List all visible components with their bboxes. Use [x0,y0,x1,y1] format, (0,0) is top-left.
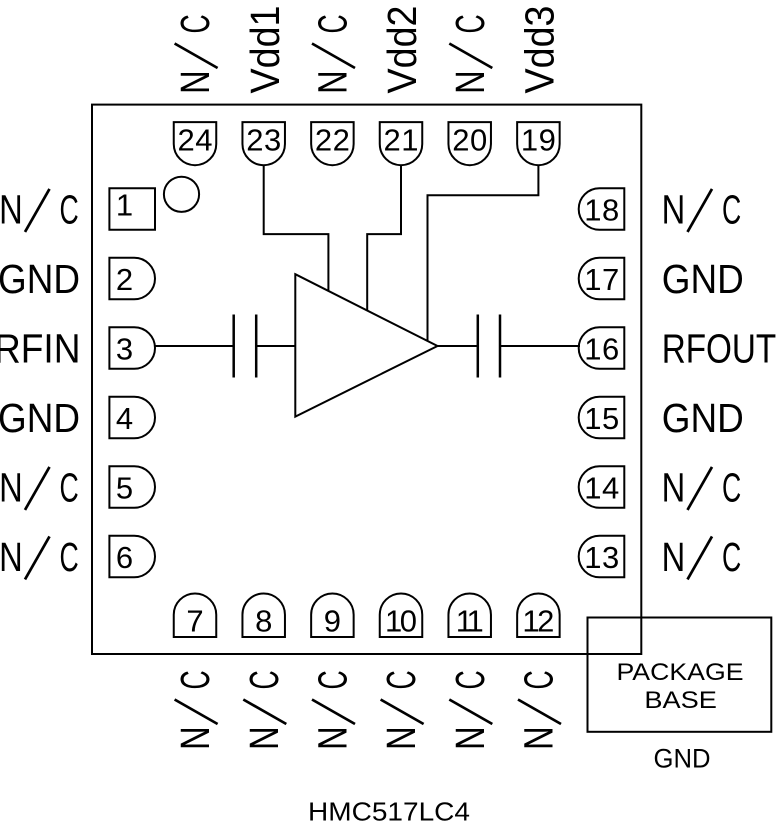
svg-text:N: N [662,534,686,580]
pin 6 pad [109,536,155,578]
pin 11 pad [448,594,491,638]
pin 7 pad [174,594,217,638]
svg-text:PACKAGE: PACKAGE [617,659,744,686]
pin 17 pad [579,258,625,300]
pin 12 pad [517,594,560,638]
pin 3 pad [109,327,155,369]
svg-text:11: 11 [456,603,484,638]
svg-text:HMC517LC4: HMC517LC4 [308,797,470,827]
svg-text:N: N [310,70,356,94]
capacitor C2 (output DC block) [478,315,500,378]
pin 10 pad [380,594,423,638]
wire pin 23 (Vdd1) to amplifier [264,166,329,292]
svg-text:N: N [172,726,218,750]
svg-text:C: C [378,670,424,689]
svg-text:C: C [172,670,218,689]
svg-text:N: N [662,465,686,511]
svg-text:C: C [722,465,741,511]
pin 4 pad [109,397,155,439]
svg-text:Vdd1: Vdd1 [242,6,288,94]
wire amplifier output to capacitor C2 [437,345,478,347]
svg-text:2: 2 [116,262,133,297]
net label N/C (pin 6) [0,534,79,580]
pin 2 pad [109,258,155,300]
svg-text:RFOUT: RFOUT [662,326,777,372]
svg-text:C: C [310,670,356,689]
svg-text:16: 16 [584,331,619,366]
net label N/C (pin 11) [447,670,493,750]
wire pin 21 (Vdd2) to amplifier [367,166,401,312]
svg-text:Vdd3: Vdd3 [517,6,563,94]
svg-text:C: C [722,534,741,580]
svg-text:GND: GND [0,395,80,441]
svg-text:C: C [60,187,79,233]
svg-text:24: 24 [178,123,213,158]
svg-text:C: C [447,670,493,689]
net label N/C (pin 9) [310,670,356,750]
pin 1 indicator circle [164,177,199,212]
svg-text:19: 19 [521,123,556,158]
capacitor C1 (input DC block) [234,315,257,378]
svg-text:RFIN: RFIN [0,326,81,372]
pin 9 pad [311,594,354,638]
pin 23 pad [242,122,285,165]
net label N/C (pin 13) [662,534,742,580]
pin 24 pad [174,122,217,165]
net label N/C (pin 24) [172,14,218,94]
svg-text:BASE: BASE [644,687,717,714]
svg-text:18: 18 [584,192,619,227]
svg-text:C: C [722,187,741,233]
svg-text:6: 6 [116,540,133,575]
pin 22 pad [311,122,354,165]
svg-text:4: 4 [116,401,133,436]
svg-text:8: 8 [255,603,272,638]
pin 20 pad [448,122,491,165]
svg-text:C: C [60,465,79,511]
svg-text:23: 23 [246,123,281,158]
net label N/C (pin 5) [0,465,79,511]
pin 18 pad [579,188,625,230]
svg-text:N: N [516,726,562,750]
net label N/C (pin 10) [378,670,424,750]
wire pin 3 (RFIN) to capacitor C1 [154,345,234,347]
svg-text:9: 9 [324,603,341,638]
pin 5 pad [109,466,155,508]
svg-text:GND: GND [662,256,744,302]
svg-text:C: C [447,14,493,33]
svg-text:7: 7 [186,603,203,638]
net label N/C (pin 12) [516,670,562,750]
pin 15 pad [579,397,625,439]
svg-text:GND: GND [654,744,711,774]
svg-text:10: 10 [385,603,417,638]
svg-text:Vdd2: Vdd2 [379,6,425,94]
svg-text:15: 15 [584,401,619,436]
svg-text:22: 22 [315,123,350,158]
pin 19 pad [517,122,560,165]
svg-text:20: 20 [452,123,487,158]
net label N/C (pin 1) [0,187,79,233]
svg-text:12: 12 [522,603,554,638]
svg-text:21: 21 [384,123,419,158]
net label N/C (pin 8) [241,670,287,750]
svg-text:3: 3 [116,331,133,366]
pin 1 pad (square) [109,188,155,230]
svg-text:N: N [447,726,493,750]
svg-text:N: N [0,465,23,511]
svg-text:17: 17 [584,262,619,297]
svg-text:1: 1 [116,188,133,223]
net label N/C (pin 20) [447,14,493,94]
svg-text:C: C [310,14,356,33]
pin 8 pad [242,594,285,638]
svg-text:GND: GND [0,256,80,302]
svg-text:C: C [60,534,79,580]
svg-text:GND: GND [662,395,744,441]
svg-text:N: N [662,187,686,233]
svg-text:N: N [378,726,424,750]
net label N/C (pin 7) [172,670,218,750]
PACKAGE BASE box [588,618,772,732]
svg-text:N: N [172,70,218,94]
svg-text:C: C [241,670,287,689]
svg-text:N: N [0,187,23,233]
IC package outline [92,105,641,654]
wire capacitor C1 to amplifier input [256,345,296,347]
svg-text:N: N [241,726,287,750]
wire capacitor C2 to pin 16 (RFOUT) [500,345,580,347]
pin 14 pad [579,466,625,508]
net label N/C (pin 22) [310,14,356,94]
pin 16 pad [579,327,625,369]
svg-text:5: 5 [116,470,133,505]
svg-text:N: N [447,70,493,94]
svg-text:14: 14 [584,470,619,505]
svg-text:13: 13 [584,540,619,575]
svg-text:C: C [516,670,562,689]
net label N/C (pin 14) [662,465,742,511]
pin 21 pad [380,122,423,165]
net label N/C (pin 18) [662,187,742,233]
wire pin 19 (Vdd3) to amplifier output [428,166,539,342]
svg-text:N: N [0,534,23,580]
pin 13 pad [579,536,625,578]
svg-text:N: N [310,726,356,750]
svg-text:C: C [172,14,218,33]
op-amp / RF amplifier triangle [295,274,437,416]
